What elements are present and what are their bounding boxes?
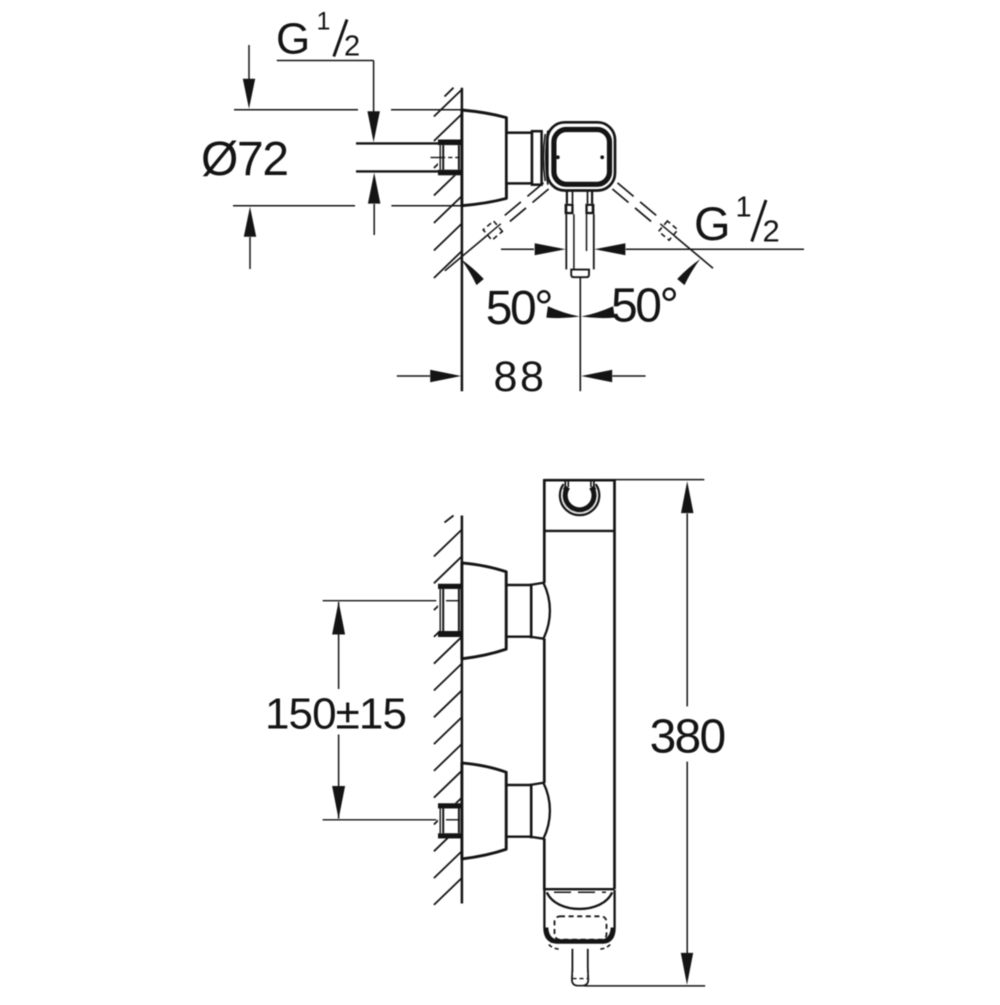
- outlet pipe nipple: [572, 949, 588, 986]
- svg-text:2: 2: [344, 31, 360, 63]
- wall surface line (side view): [461, 516, 464, 904]
- centre/extension line lower connection: [323, 819, 460, 821]
- svg-text:150±15: 150±15: [265, 689, 406, 738]
- svg-text:380: 380: [650, 711, 725, 764]
- dashes over bowl: [554, 891, 606, 893]
- arrow to pipe underside: [368, 173, 381, 235]
- svg-text:88: 88: [494, 353, 547, 401]
- svg-text:50°: 50°: [486, 282, 552, 335]
- handle pivot dots: [556, 155, 560, 159]
- svg-text:G: G: [694, 197, 731, 250]
- lever collar rings: [565, 204, 595, 214]
- wall hatching (top view): [434, 88, 462, 278]
- body top extension line: [615, 479, 705, 481]
- svg-text:G: G: [276, 15, 310, 64]
- label G 1/2 (supply pipe): [276, 8, 360, 64]
- body bottom seam: [544, 888, 614, 890]
- rotated lever position dashed (left 50 deg): [483, 183, 548, 240]
- hand shower connection dimension (G 1/2): [501, 243, 804, 255]
- dashed arcs below cap corners: [549, 945, 559, 950]
- dimension 150 +/- 15: [332, 602, 345, 820]
- dimension lines dia 72: [233, 45, 461, 269]
- neck arcs between collar and handle: [544, 134, 546, 181]
- rotated lever position dashed (right 50 deg): [612, 183, 677, 240]
- leader line for G 1/2: [277, 61, 380, 143]
- svg-text:2: 2: [763, 214, 780, 249]
- hand shower holder ring: [560, 480, 599, 515]
- bottom cap outline: [544, 890, 614, 943]
- wall hatching (side view): [434, 516, 462, 905]
- 50 deg arc arrowhead right leg: [677, 259, 700, 285]
- 50 deg angle leg (left): [445, 236, 486, 271]
- lever end cap (top view): [571, 270, 589, 278]
- escutcheon rosette (side view upper): [462, 563, 506, 659]
- body collar band (top view): [532, 131, 542, 185]
- pipe fitting in wall (side view lower): [438, 803, 462, 838]
- svg-text:1: 1: [317, 8, 331, 36]
- pipe fitting in wall (top view): [438, 140, 462, 176]
- escutcheon rosette (side view lower): [462, 763, 506, 859]
- lever neck (top view): [567, 190, 592, 204]
- handle head inner thick ring: [554, 130, 610, 185]
- pipe centre line (top view): [431, 157, 460, 159]
- escutcheon rosette (top view): [462, 110, 507, 206]
- bottom cap thick band: [547, 928, 613, 941]
- label G 1/2 (hand shower): [694, 192, 780, 251]
- valve body (top view): [506, 133, 532, 184]
- dimension 88: [397, 370, 646, 382]
- svg-text:Ø72: Ø72: [201, 133, 288, 186]
- centre/extension line upper connection: [323, 600, 460, 602]
- wall union connector (upper): [506, 583, 550, 639]
- svg-text:1: 1: [736, 192, 752, 224]
- thermostat body (side view): [544, 479, 614, 890]
- 50 deg arc arrowheads at centre line: [546, 306, 580, 318]
- handle head outer (top view): [547, 122, 615, 190]
- svg-text:50°: 50°: [611, 280, 677, 333]
- outlet bowl arc: [547, 892, 612, 909]
- lever shaft (top view): [566, 214, 594, 269]
- lever centre line (extension to 88 dim): [579, 278, 581, 391]
- wall union connector (lower): [506, 783, 550, 839]
- supply pipe (top view): [356, 143, 439, 171]
- bottom extension line: [584, 985, 705, 987]
- 50 deg arc arrowhead left leg: [461, 259, 484, 285]
- dimension 380: [681, 481, 694, 985]
- 50 deg angle leg (right): [675, 236, 713, 268]
- pipe fitting in wall (side view upper): [438, 584, 462, 637]
- wall surface line (top view): [461, 88, 464, 392]
- inner dashed ring of cap: [555, 916, 607, 939]
